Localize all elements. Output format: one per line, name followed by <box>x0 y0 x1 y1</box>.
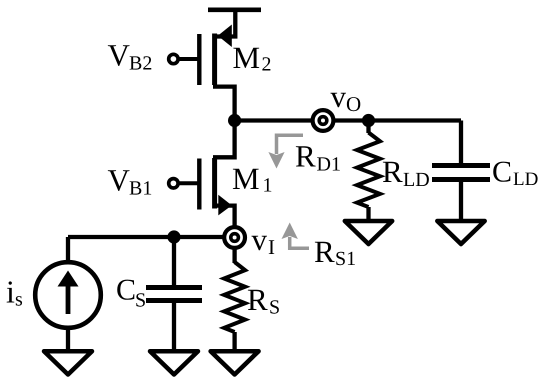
svg-text:i: i <box>6 274 15 310</box>
arrow RS1 looking into source <box>282 223 310 249</box>
port vI <box>224 227 245 248</box>
ground under RS <box>211 351 259 374</box>
resistor RS <box>224 262 245 332</box>
svg-text:D1: D1 <box>317 154 341 176</box>
resistor RLD <box>357 121 380 223</box>
ground under CLD <box>437 221 484 244</box>
svg-text:O: O <box>346 92 361 116</box>
label VB2 <box>108 38 153 75</box>
wire vI port down to RS <box>232 249 236 264</box>
label CS <box>116 274 146 312</box>
node CS tap <box>167 230 180 243</box>
wire vO to CLD <box>334 118 462 122</box>
capacitor CLD <box>432 121 490 223</box>
svg-text:R: R <box>247 282 268 317</box>
svg-text:S: S <box>269 297 280 319</box>
svg-text:I: I <box>268 235 275 259</box>
ground under is <box>44 351 92 374</box>
wire rail to M2 source <box>213 10 235 37</box>
M2 drain lead <box>213 87 235 121</box>
M1 drain lead <box>213 121 235 157</box>
wire RS to ground <box>232 332 236 352</box>
transistor M1 <box>169 158 232 215</box>
svg-text:2: 2 <box>262 54 272 76</box>
label RD1 <box>295 139 341 176</box>
wire junction to vO port <box>235 118 313 122</box>
svg-text:V: V <box>108 38 131 73</box>
label vI <box>252 222 276 259</box>
svg-text:S: S <box>135 290 146 312</box>
label vO <box>331 79 362 116</box>
svg-text:R: R <box>314 234 335 269</box>
label RS <box>247 282 280 319</box>
svg-text:S1: S1 <box>335 248 356 270</box>
arrow RD1 looking into drain <box>268 135 303 168</box>
port vO <box>313 110 334 131</box>
capacitor CS <box>146 237 202 352</box>
node drain junction <box>228 114 241 127</box>
svg-text:LD: LD <box>513 169 538 190</box>
svg-text:B2: B2 <box>129 53 152 75</box>
node RLD tap <box>362 114 375 127</box>
M1 source lead <box>213 206 235 227</box>
ground under CS <box>150 351 198 374</box>
svg-text:M: M <box>232 161 260 196</box>
svg-text:M: M <box>233 40 261 75</box>
transistor M2 <box>169 25 232 86</box>
bottom wire is/CS to vI port <box>68 235 225 239</box>
label is <box>6 274 23 311</box>
svg-text:1: 1 <box>263 175 273 197</box>
supply rail <box>208 8 261 13</box>
svg-text:s: s <box>15 289 23 311</box>
label RS1 <box>314 234 356 270</box>
svg-text:LD: LD <box>403 169 430 191</box>
ground under RLD <box>345 221 392 244</box>
current source is <box>35 237 101 352</box>
svg-text:V: V <box>108 163 131 198</box>
svg-text:R: R <box>382 154 403 189</box>
label CLD <box>492 156 538 191</box>
label VB1 <box>108 163 153 200</box>
svg-text:v: v <box>252 222 268 257</box>
svg-text:C: C <box>116 274 136 307</box>
svg-text:v: v <box>331 79 347 114</box>
svg-text:R: R <box>295 139 316 174</box>
label M1 <box>232 161 273 197</box>
svg-text:B1: B1 <box>129 178 152 200</box>
label RLD <box>382 154 430 191</box>
label M2 <box>233 40 272 76</box>
svg-text:C: C <box>492 156 512 189</box>
